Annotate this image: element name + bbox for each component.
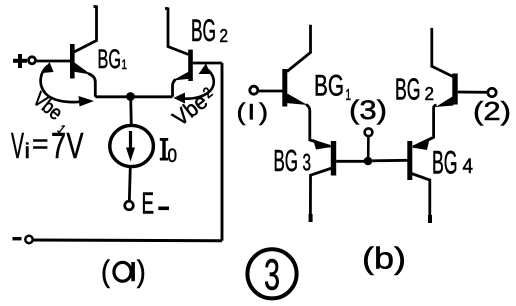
transistor BG3 emitter arrow (into bar)	[313, 139, 331, 150]
transistor BG1 emitter arrow	[286, 94, 308, 106]
svg-text:E: E	[142, 186, 155, 221]
label (a)	[101, 254, 146, 289]
wire base lead BG2 to right wire	[193, 62, 222, 65]
label (1)	[237, 99, 269, 126]
wire BG2 emitter down to BG4	[413, 105, 437, 147]
label Vi=7V	[11, 125, 84, 166]
terminal circle (2)	[488, 88, 496, 96]
transistor BG1 base bar	[70, 44, 75, 79]
transistor BG2 collector	[165, 8, 189, 55]
wire bottom rail	[33, 239, 222, 243]
terminal circle (1)	[250, 86, 258, 94]
transistor BG4 emitter arrow (into bar)	[412, 139, 430, 150]
transistor BG2 collector	[432, 28, 453, 77]
svg-text:2: 2	[220, 25, 229, 46]
svg-text:BG: BG	[314, 70, 344, 103]
transistor BG2 base bar	[188, 50, 193, 81]
svg-text:BG: BG	[395, 72, 421, 107]
wire BG1 emitter to rail	[88, 74, 95, 97]
svg-text:BG: BG	[274, 143, 299, 178]
svg-text:V: V	[11, 125, 24, 166]
svg-text:BG: BG	[432, 145, 458, 181]
wire BG3 base to node	[336, 160, 364, 163]
current source I0 circle	[110, 125, 154, 166]
wire node to current source	[129, 97, 132, 126]
svg-text:BG: BG	[98, 44, 122, 74]
output terminal circle (-)	[25, 236, 32, 243]
transistor BG1 collector	[287, 25, 311, 72]
svg-text:(3): (3)	[349, 95, 387, 125]
svg-text:=: =	[32, 128, 49, 159]
end blob BG3 lead	[309, 214, 313, 222]
svg-text:4: 4	[463, 155, 474, 178]
terminal E circle	[125, 201, 134, 210]
wire base lead BG2 to terminal (2)	[458, 91, 488, 94]
svg-text:3: 3	[303, 150, 312, 177]
input terminal circle (+)	[29, 57, 36, 64]
svg-text:2: 2	[425, 83, 435, 104]
current source arrow	[129, 131, 132, 150]
Vbe1 arc arrow	[41, 66, 80, 103]
terminal - (minus)	[13, 237, 22, 240]
label Vbe2 (rotated)	[168, 83, 220, 131]
svg-text:i: i	[25, 140, 31, 163]
wire emitter rail	[95, 95, 172, 98]
wire base lead BG1	[36, 60, 71, 63]
svg-text:0: 0	[168, 146, 178, 167]
transistor BG2 emitter arrow	[173, 70, 193, 81]
terminal + (plus sign)	[13, 54, 27, 68]
transistor BG1 emitter arrow	[73, 63, 92, 75]
svg-text:(: (	[101, 254, 111, 289]
svg-text:): )	[259, 99, 268, 126]
svg-text:3: 3	[264, 251, 280, 300]
transistor BG3 collector lead down	[310, 168, 332, 219]
svg-text:(b): (b)	[362, 241, 406, 276]
svg-text:1: 1	[122, 57, 128, 72]
transistor BG2 base bar	[452, 74, 457, 105]
end blob BG4 lead	[428, 215, 432, 223]
wire current source to E terminal	[129, 167, 130, 202]
wire node to BG4 base	[372, 159, 407, 162]
svg-text:7: 7	[51, 125, 66, 166]
transistor BG1 collector	[74, 6, 97, 53]
svg-text:V: V	[67, 125, 84, 166]
node junction dot	[364, 157, 373, 166]
svg-text:(2): (2)	[473, 96, 511, 126]
svg-text:(: (	[237, 99, 246, 126]
svg-text:): )	[137, 254, 146, 289]
wire BG1 emitter down	[306, 105, 331, 147]
transistor BG3 base bar	[331, 141, 336, 176]
wire right vertical	[221, 63, 224, 241]
terminal circle (3)	[365, 128, 373, 136]
transistor BG2 emitter arrow	[436, 97, 454, 108]
svg-text:BG: BG	[191, 12, 216, 48]
label I0	[160, 138, 177, 167]
transistor BG4 base bar	[407, 141, 412, 180]
node junction dot	[126, 92, 135, 101]
wire node up to terminal (3)	[367, 136, 370, 157]
wire BG2 emitter to rail	[173, 80, 176, 97]
transistor BG4 collector lead down	[412, 174, 430, 220]
transistor BG1 base bar	[282, 69, 287, 107]
wire base lead BG1	[259, 90, 283, 93]
Vbe2 arc arrow	[178, 68, 214, 99]
label Vbe1 (rotated)	[25, 88, 76, 137]
